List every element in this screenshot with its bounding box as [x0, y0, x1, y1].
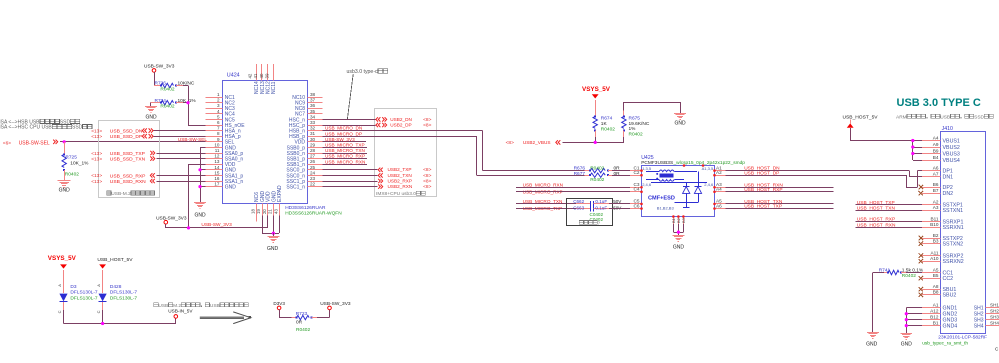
svg-text:R0402: R0402 [296, 327, 310, 333]
svg-text:<13>: <13> [91, 173, 102, 179]
junction [911, 152, 914, 155]
svg-text:A8: A8 [933, 284, 939, 289]
net label USB_MICRO_RXP [322, 154, 367, 159]
net USB2_TXP port [378, 167, 431, 173]
svg-text:USB_MICRO_DN: USB_MICRO_DN [325, 126, 362, 131]
svg-text:R0402: R0402 [601, 126, 615, 132]
svg-text:B1: B1 [933, 320, 939, 325]
svg-text:R0402: R0402 [160, 104, 174, 110]
wire [322, 136, 590, 175]
svg-text:A2: A2 [716, 170, 722, 175]
svg-text:<8>: <8> [423, 117, 431, 123]
junction [198, 168, 201, 171]
svg-text:USB_MICRO_RXN: USB_MICRO_RXN [325, 159, 365, 164]
wire [872, 273, 874, 333]
svg-text:41: 41 [253, 73, 258, 78]
net USB-SW-SEL port [3, 140, 58, 147]
svg-text:USB-SW_3V3: USB-SW_3V3 [320, 301, 351, 307]
svg-text:USB-SW_3V3: USB-SW_3V3 [201, 222, 232, 228]
svg-text:15: 15 [214, 170, 220, 175]
svg-text:VSYS_5V: VSYS_5V [582, 86, 611, 93]
power VSYS_5V (bottom) [48, 255, 77, 293]
svg-text:DFLS130L-7: DFLS130L-7 [110, 295, 138, 301]
svg-text:D3V3: D3V3 [273, 301, 285, 306]
svg-text:23K20101-LCP-582RF: 23K20101-LCP-582RF [938, 335, 987, 341]
svg-text:19: 19 [256, 209, 261, 214]
net label USB_HOST_TXN (J410) [857, 206, 896, 212]
svg-text:18: 18 [251, 209, 256, 214]
svg-text:VBUS3: VBUS3 [943, 151, 960, 157]
svg-text:A11: A11 [931, 250, 939, 255]
svg-text:39: 39 [265, 73, 270, 78]
net USB_SSD_TXN port [91, 156, 155, 162]
svg-text:B5: B5 [933, 273, 939, 278]
svg-text:23: 23 [310, 176, 316, 181]
wire [322, 119, 375, 121]
svg-text:DP2: DP2 [943, 185, 953, 191]
svg-text:SSC1_n: SSC1_n [286, 185, 305, 191]
svg-text:16: 16 [214, 176, 220, 181]
svg-text:10: 10 [214, 142, 220, 147]
net label USB-SW_3V3 (pin30) [322, 137, 366, 142]
svg-text:33: 33 [310, 120, 316, 125]
wire [60, 141, 205, 143]
svg-text:USB-SW_3V3: USB-SW_3V3 [325, 137, 355, 142]
svg-text:A6: A6 [933, 166, 939, 171]
svg-text:7: 7 [217, 126, 220, 131]
svg-text:B8: B8 [933, 290, 939, 295]
svg-text:21: 21 [268, 209, 273, 214]
svg-text:<8>: <8> [423, 173, 431, 179]
svg-text:USB: USB [940, 114, 950, 120]
net USB_SSD_TXP port [91, 151, 155, 157]
net label USB_HOST_DN [744, 166, 780, 172]
svg-text:USB-SW-SEL: USB-SW-SEL [19, 140, 50, 146]
ground (below U425) [673, 236, 685, 251]
net label USB_MICRO_TXN [523, 199, 563, 204]
svg-text:A5: A5 [933, 267, 939, 272]
ground (below U424) [267, 233, 279, 252]
wire [183, 86, 189, 126]
net label USB-SW-SEL (at pin9) [178, 137, 207, 142]
wire [157, 175, 206, 177]
svg-text:R741: R741 [879, 268, 891, 274]
net label USB_MICRO_TXN [322, 148, 367, 153]
net label USB_HOST_TXP (J410) [857, 200, 895, 206]
net USB_SSD_RXN port [91, 179, 155, 185]
svg-text:28: 28 [310, 148, 316, 153]
capacitor C662 [573, 199, 622, 207]
junction [594, 141, 597, 144]
svg-text:6: 6 [217, 120, 220, 125]
svg-text:EXPAD: EXPAD [277, 185, 283, 202]
svg-text:U425: U425 [641, 155, 654, 161]
svg-text:B4: B4 [933, 155, 939, 160]
svg-text:0R: 0R [614, 171, 621, 177]
svg-text:SBU2: SBU2 [943, 293, 957, 299]
svg-text:R0402: R0402 [629, 131, 643, 137]
text ARM note [896, 114, 993, 120]
text title USB 3.0 TYPE C [897, 97, 981, 109]
net label USB_MICRO_RXN [523, 182, 563, 187]
svg-text:<13>: <13> [91, 151, 102, 157]
ground (right of R675) [674, 114, 686, 127]
svg-text:B6: B6 [933, 182, 939, 187]
wire [64, 310, 176, 324]
svg-text:USB_SSD_TXN: USB_SSD_TXN [110, 157, 146, 163]
svg-text:?: ? [598, 220, 601, 225]
svg-text:30: 30 [310, 137, 316, 142]
svg-text:20: 20 [262, 209, 267, 214]
junction [272, 232, 275, 235]
svg-text:B10: B10 [930, 222, 939, 227]
svg-text:B1,B2,B3: B1,B2,B3 [657, 206, 675, 211]
net USB2_DP port [376, 122, 432, 128]
svg-text:1: 1 [217, 92, 220, 97]
wire [183, 102, 188, 104]
net label USB_MICRO_RXP [523, 189, 563, 194]
svg-text:GND: GND [225, 185, 237, 191]
svg-text:<8>: <8> [423, 167, 431, 173]
svg-text:R726: R726 [155, 81, 167, 87]
svg-text:3: 3 [217, 103, 220, 108]
wire [279, 310, 297, 318]
svg-text:GND: GND [145, 115, 157, 121]
svg-text:C: C [995, 346, 999, 351]
net label USB_HOST_DP [744, 170, 779, 176]
svg-text:2,4,6: 2,4,6 [704, 182, 714, 187]
resistor R674 [593, 115, 615, 142]
svg-text:J410: J410 [942, 126, 953, 132]
svg-text:SH4: SH4 [990, 320, 999, 325]
wire [154, 130, 206, 132]
net label USB_MICRO_TXP [322, 143, 367, 148]
svg-text:D428: D428 [110, 284, 122, 290]
svg-text:2,4,6: 2,4,6 [642, 182, 652, 187]
net label USB_HOST_TXP [744, 204, 782, 210]
svg-text:USB2_RXP: USB2_RXP [388, 178, 413, 183]
svg-text:USB_SSD_TXP: USB_SSD_TXP [110, 151, 145, 157]
op-amp U424 mux HD3SS6126RUAR [205, 64, 342, 221]
junction [911, 139, 914, 142]
svg-text:USB_MICRO_RXP: USB_MICRO_RXP [325, 154, 365, 159]
net label USB_HOST_TXN [744, 199, 783, 205]
wire [609, 203, 630, 205]
resistor R725 [62, 142, 89, 181]
svg-text:<8>: <8> [423, 178, 431, 184]
svg-text:19.6K/NC: 19.6K/NC [629, 121, 650, 127]
svg-text:DFLS130L-7: DFLS130L-7 [70, 295, 98, 301]
svg-text:C: C [57, 310, 62, 313]
svg-text:SSRXN1: SSRXN1 [943, 225, 964, 231]
svg-text:VBUS1: VBUS1 [943, 138, 960, 144]
svg-text:35: 35 [310, 109, 316, 114]
svg-text:DN1: DN1 [943, 174, 954, 180]
wire [609, 208, 630, 210]
net label USB-SW_3V3 [201, 222, 232, 228]
svg-text:USB2_RXN: USB2_RXN [388, 184, 413, 189]
resistor R723 [296, 311, 313, 333]
svg-text:D3: D3 [70, 284, 76, 290]
wire [725, 171, 922, 177]
junction [186, 101, 189, 104]
resistor R724 [151, 98, 197, 110]
svg-text:A6: A6 [716, 203, 722, 208]
resistor R677 [574, 171, 621, 183]
wire [322, 169, 377, 171]
junction [905, 312, 908, 315]
wire [189, 164, 206, 228]
svg-text:A1: A1 [933, 303, 939, 308]
svg-text:32: 32 [310, 126, 316, 131]
text usb3.0 type-c callout [347, 69, 388, 119]
net label USB_HOST_RXN (J410) [857, 222, 896, 228]
svg-text:GND: GND [866, 341, 878, 347]
wire [612, 170, 630, 172]
wire [322, 186, 377, 188]
svg-text:C663: C663 [573, 206, 584, 211]
svg-text:<13>: <13> [91, 156, 102, 162]
svg-text:34: 34 [310, 114, 316, 119]
svg-text:R0402: R0402 [902, 273, 916, 279]
wire [154, 72, 157, 85]
svg-text:USB-SW_3V3: USB-SW_3V3 [156, 215, 187, 221]
diode D3 DFLS130L-7 [57, 284, 98, 314]
net label USB_MICRO_DN [325, 126, 362, 131]
annotation box (caps) [567, 199, 613, 226]
svg-text:USB-M.2: USB-M.2 [111, 191, 131, 197]
svg-text:SH2: SH2 [990, 309, 999, 314]
node USB-IN_5V terminal [154, 303, 248, 318]
wire [725, 171, 922, 188]
text cap footprints [579, 212, 603, 225]
net USB2_VBUS port [506, 140, 561, 146]
svg-text:VSYS_5V: VSYS_5V [48, 255, 77, 262]
svg-text:C6: C6 [634, 203, 640, 208]
svg-text:USB2_DP: USB2_DP [390, 122, 411, 127]
svg-text:GND: GND [194, 213, 206, 219]
svg-text:USB 3.0 TYPE C: USB 3.0 TYPE C [897, 97, 981, 109]
wire [856, 204, 923, 206]
svg-text:1K: 1K [601, 121, 608, 127]
svg-text:42: 42 [247, 73, 252, 78]
svg-text:26: 26 [310, 159, 316, 164]
svg-text:R723: R723 [296, 311, 308, 317]
net label USB_HOST_RXP (J410) [857, 217, 895, 223]
power USB_HOST_5V (J410) [843, 114, 879, 140]
wire [725, 191, 833, 193]
svg-text:SSD: SSD [72, 125, 83, 131]
svg-text:USB_SSD_DP: USB_SSD_DP [110, 134, 142, 140]
svg-text:DFLS130L-7: DFLS130L-7 [110, 289, 138, 295]
svg-text:USB_HOST_5V: USB_HOST_5V [97, 257, 133, 263]
svg-text:USB_HOST_5V: USB_HOST_5V [843, 114, 879, 120]
net USB_SSD_RXP port [91, 173, 155, 179]
text corner C [995, 346, 999, 351]
svg-text:10K_1%: 10K_1% [70, 161, 89, 167]
net label USB_HOST_RXN [744, 182, 783, 188]
svg-text:24: 24 [310, 170, 316, 175]
wire [154, 136, 206, 138]
ground (left of U424) [194, 203, 206, 219]
svg-text:<6>: <6> [3, 140, 11, 146]
svg-text:0R: 0R [296, 319, 303, 325]
resistor R675 [622, 110, 650, 137]
svg-text:USB_SSD_RXN: USB_SSD_RXN [110, 179, 146, 185]
svg-text:C0402: C0402 [590, 217, 604, 222]
svg-text:B7: B7 [933, 188, 939, 193]
wire [157, 181, 206, 183]
power VSYS_5V [582, 86, 611, 116]
wire [612, 175, 630, 177]
svg-text:HD3SS6126RUAR-WQFN: HD3SS6126RUAR-WQFN [285, 211, 342, 217]
wire [850, 141, 922, 161]
svg-text:<13>: <13> [91, 128, 102, 134]
annotation box (IMX8 usb3.0) [375, 109, 437, 197]
svg-text:A4: A4 [933, 135, 939, 140]
net USB2_DN port [376, 117, 432, 123]
svg-text:A9: A9 [933, 142, 939, 147]
capacitor C663 [573, 206, 622, 212]
svg-text:C2: C2 [634, 170, 640, 175]
svg-text:B3: B3 [933, 239, 939, 244]
svg-text:USB2_TXN: USB2_TXN [388, 173, 412, 178]
node USB-SW_3V3 terminal (below U424) [156, 215, 187, 224]
wire [725, 187, 833, 189]
svg-text:0.1uF: 0.1uF [595, 206, 607, 211]
svg-text:DN2: DN2 [943, 191, 954, 197]
svg-text:B11: B11 [931, 216, 939, 221]
svg-text:R0402: R0402 [65, 172, 79, 178]
wire [725, 208, 833, 210]
svg-text:9: 9 [217, 137, 220, 142]
junction [198, 185, 201, 188]
svg-text:R0402: R0402 [590, 165, 604, 171]
svg-text:<8>: <8> [423, 122, 431, 128]
wire [624, 102, 681, 113]
svg-text:<8>: <8> [506, 140, 514, 146]
svg-text:25: 25 [310, 165, 316, 170]
net USB_SSD_DN port [91, 128, 153, 134]
wire [200, 147, 205, 202]
wire [516, 208, 576, 210]
svg-text:C4: C4 [634, 187, 640, 192]
svg-text:1%: 1% [629, 126, 637, 132]
svg-text:USB_SSD_RXP: USB_SSD_RXP [110, 173, 146, 179]
svg-text:4: 4 [217, 109, 220, 114]
junction [677, 231, 680, 234]
svg-text:29: 29 [310, 142, 316, 147]
svg-text:B2: B2 [933, 233, 939, 238]
svg-text:R0402: R0402 [590, 177, 604, 183]
svg-text:C662: C662 [573, 199, 584, 204]
ground (below R724) [145, 103, 157, 121]
wire [312, 310, 330, 318]
wire [856, 221, 923, 223]
wire [322, 131, 590, 171]
svg-text:VBUS4: VBUS4 [943, 158, 960, 164]
wire [157, 153, 206, 155]
wire [322, 175, 377, 177]
svg-text:5: 5 [217, 114, 220, 119]
junction [911, 145, 914, 148]
annotation arrow [200, 312, 251, 324]
svg-text:NC11: NC11 [271, 81, 277, 94]
svg-text:DFLS130L-7: DFLS130L-7 [70, 289, 98, 295]
filter U425 CMF+ESD PCMF3USB3S [630, 155, 745, 224]
svg-text:USB_SSD_DN: USB_SSD_DN [110, 129, 143, 135]
svg-text:40: 40 [259, 73, 264, 78]
net label USB_MICRO_TXP [523, 206, 563, 211]
svg-text:CMF+ESD: CMF+ESD [648, 196, 675, 202]
ground (below J410) [900, 334, 912, 348]
text HSA-HSB comment [0, 119, 92, 131]
svg-text:13: 13 [214, 159, 220, 164]
svg-text:usb3.0 type-c: usb3.0 type-c [347, 69, 379, 75]
svg-text:USB-SW_3V3: USB-SW_3V3 [144, 63, 175, 69]
connector J410 USB type-C [919, 126, 999, 347]
power USB_HOST_5V (bottom) [97, 257, 133, 293]
svg-text:22: 22 [310, 182, 316, 187]
svg-text:HSA <-->HSC CPU USB: HSA <-->HSC CPU USB [0, 125, 52, 131]
wire [166, 216, 268, 228]
svg-text:SH3: SH3 [990, 314, 999, 319]
wire [725, 203, 833, 205]
svg-text:IMX8+CPU usb3.0: IMX8+CPU usb3.0 [376, 191, 416, 197]
node USB-SW_3V3 terminal (right) [320, 301, 351, 310]
svg-text:R677: R677 [574, 171, 586, 177]
svg-text:11: 11 [215, 148, 220, 153]
svg-text:ARM: ARM [896, 114, 907, 120]
svg-text:USB2_VBUS: USB2_VBUS [523, 140, 551, 145]
svg-text:8: 8 [217, 131, 220, 136]
svg-text:A7: A7 [933, 171, 939, 176]
svg-text:R674: R674 [601, 116, 613, 122]
annotation box (SSD signals) [99, 121, 160, 198]
net label USB_MICRO_DP [325, 131, 362, 136]
wire [856, 210, 923, 212]
net USB2_RXN port [378, 184, 431, 190]
svg-text:USB2_DN: USB2_DN [390, 117, 412, 122]
ground (below R725) [58, 181, 71, 194]
svg-text:U424: U424 [227, 73, 240, 79]
svg-text:38: 38 [310, 92, 316, 97]
svg-text:USB_MICRO_RXN: USB_MICRO_RXN [523, 182, 563, 187]
wire [157, 158, 206, 160]
svg-text:USB_MICRO_DP: USB_MICRO_DP [325, 131, 362, 136]
svg-text:usb_typec_ra_smt_th: usb_typec_ra_smt_th [922, 341, 968, 347]
junction [905, 324, 908, 327]
node USB-SW_3V3 terminal (top-left) [144, 63, 175, 72]
net USB2_TXN port [378, 173, 431, 179]
wire [516, 203, 576, 205]
junction [101, 322, 104, 325]
resistor R676 [574, 165, 621, 173]
node D3V3 terminal [273, 301, 285, 310]
svg-text:SSTXN2: SSTXN2 [943, 242, 964, 248]
svg-text:USB-IN_5V: USB-IN_5V [168, 309, 193, 314]
svg-text:A: A [96, 284, 101, 287]
svg-text:A12: A12 [930, 309, 939, 314]
svg-text:R725: R725 [65, 154, 77, 160]
svg-text:36: 36 [310, 103, 316, 108]
svg-text:B3: B3 [681, 217, 686, 223]
svg-text:1.5k 0.1%: 1.5k 0.1% [902, 268, 924, 274]
svg-text:A3: A3 [933, 205, 939, 210]
wire [262, 216, 280, 234]
junction [905, 318, 908, 321]
svg-text:R0402: R0402 [160, 87, 174, 93]
